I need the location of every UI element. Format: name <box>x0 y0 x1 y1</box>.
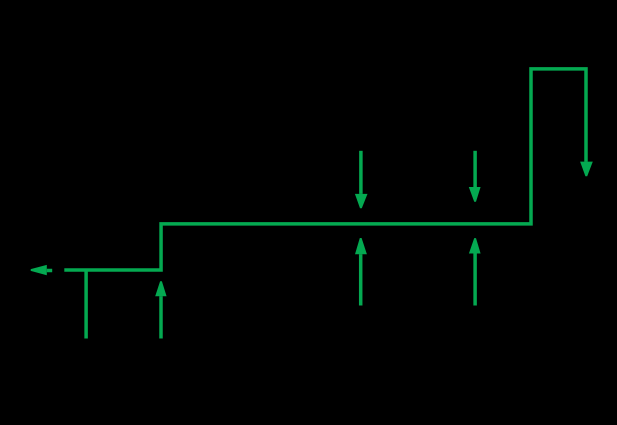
node: up arrow 2 head <box>469 238 481 253</box>
wire: up arrow A shaft <box>159 296 163 338</box>
node: up arrow 1 head <box>355 238 367 254</box>
node: down arrow 1 head <box>355 194 368 208</box>
node: down arrow 2 head <box>469 187 481 202</box>
wire: left arrow tail stub <box>47 269 52 273</box>
wire: hanging vertical below level 1 <box>84 270 88 339</box>
wire: main energy level path (level 1, step up, level 2, step up, top shelf, down leg) <box>64 69 586 270</box>
wire: up arrow 2 shaft <box>473 254 477 306</box>
wire: down arrow 2 shaft <box>473 151 477 187</box>
wire: down arrow 1 shaft <box>359 151 363 194</box>
node: right down arrowhead <box>580 162 593 177</box>
node: up arrow A head <box>155 281 166 296</box>
wire: up arrow 1 shaft <box>359 254 363 305</box>
node: left arrowhead <box>31 265 47 275</box>
